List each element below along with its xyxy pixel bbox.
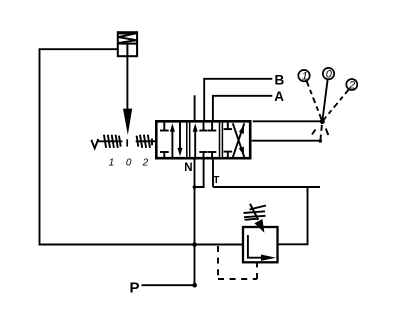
relief valve body bbox=[243, 227, 278, 262]
relief valve flow path bbox=[248, 235, 262, 258]
box1 up arrow bbox=[170, 123, 175, 157]
box3 blocked port top bbox=[224, 122, 233, 129]
valve centering mark bbox=[126, 139, 128, 146]
box1 blocked port bottom bbox=[160, 152, 169, 157]
svg-text:P: P bbox=[130, 279, 140, 296]
box2 blocked ports top bbox=[199, 122, 216, 130]
lever rod right bbox=[136, 140, 157, 142]
lever position 0 line bbox=[322, 80, 327, 122]
main valve body bbox=[156, 121, 250, 158]
wire port B bbox=[204, 79, 272, 122]
lever link (dashed) bbox=[320, 125, 322, 141]
wire valve to lever link bbox=[252, 140, 321, 142]
box1 blocked port top bbox=[160, 122, 169, 130]
wire: pilot control line down bbox=[126, 56, 128, 109]
relief adjustment arrow bbox=[250, 204, 258, 220]
wire: pilot supply down-left to P junction bbox=[40, 49, 244, 244]
spring seat mark bbox=[151, 139, 153, 146]
wire port N2 bbox=[195, 158, 204, 187]
lever pivot dot bbox=[320, 119, 325, 124]
relief valve flow arrowhead bbox=[261, 255, 276, 261]
main valve divider 2 bbox=[220, 123, 223, 157]
lever end V bbox=[91, 139, 98, 148]
junction dot main bbox=[192, 242, 197, 247]
svg-text:1: 1 bbox=[109, 157, 115, 168]
svg-text:N: N bbox=[184, 162, 192, 174]
pilot valve spring bbox=[119, 33, 137, 43]
position circle 0 bbox=[323, 68, 334, 79]
pilot control arrow bbox=[123, 109, 132, 135]
position circle 2 bbox=[346, 79, 357, 90]
svg-text:0: 0 bbox=[126, 157, 132, 168]
wire valve to lever pivot bbox=[253, 120, 323, 122]
wire port A bbox=[213, 96, 272, 122]
tank line T bbox=[213, 186, 320, 188]
junction dot P bbox=[192, 283, 197, 288]
box3 blocked port bottom bbox=[224, 152, 233, 158]
lever overtravel 1 bbox=[326, 129, 329, 136]
box3 cross arrow down bbox=[233, 123, 245, 157]
position circle 1 bbox=[298, 70, 309, 81]
wire P bbox=[142, 284, 195, 286]
box1 down arrow bbox=[178, 122, 183, 156]
main valve divider 1 bbox=[187, 123, 190, 157]
lever link dot bbox=[319, 139, 323, 143]
relief valve spring bbox=[244, 206, 267, 220]
svg-text:0: 0 bbox=[326, 69, 333, 81]
svg-text:1: 1 bbox=[302, 71, 308, 83]
svg-text:2: 2 bbox=[142, 157, 149, 168]
port X stub above valve bbox=[194, 95, 196, 122]
wire port N down bbox=[194, 158, 196, 285]
svg-text:A: A bbox=[274, 89, 284, 104]
spring right bbox=[137, 135, 150, 148]
pilot sense line (dashed) bbox=[218, 246, 257, 279]
lever position 2 line (dashed) bbox=[322, 89, 349, 121]
wire port T down bbox=[212, 158, 214, 187]
box3 cross arrow up bbox=[233, 123, 245, 157]
box2 up arrow bbox=[193, 123, 198, 157]
svg-text:B: B bbox=[275, 72, 285, 87]
svg-text:T: T bbox=[213, 175, 219, 186]
lever position 1 line (dashed) bbox=[307, 81, 323, 121]
junction dot N/N2 bbox=[193, 185, 197, 189]
wire relief to tank bbox=[278, 187, 308, 244]
pilot valve body bbox=[118, 32, 137, 56]
spring left bbox=[104, 135, 121, 148]
lever overtravel 2 bbox=[312, 130, 316, 135]
lever rod left bbox=[97, 140, 123, 142]
box2 blocked ports bottom bbox=[199, 152, 216, 157]
